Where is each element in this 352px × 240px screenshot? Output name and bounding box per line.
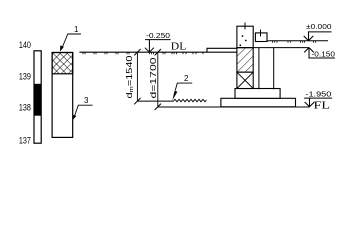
svg-text:137: 137 xyxy=(19,136,31,146)
svg-text:140: 140 xyxy=(19,40,31,50)
svg-text:±0.000: ±0.000 xyxy=(306,22,332,31)
svg-text:3: 3 xyxy=(84,96,89,105)
svg-text:DL: DL xyxy=(171,41,187,52)
svg-text:-1.950: -1.950 xyxy=(305,89,331,98)
svg-text:-0.150: -0.150 xyxy=(312,49,336,58)
svg-text:138: 138 xyxy=(19,103,31,113)
svg-text:FL: FL xyxy=(314,100,331,111)
svg-text:139: 139 xyxy=(19,72,31,82)
svg-text:2: 2 xyxy=(184,74,189,83)
svg-text:d=1700: d=1700 xyxy=(149,57,158,99)
svg-text:1: 1 xyxy=(74,25,79,34)
svg-text:-0.250: -0.250 xyxy=(146,31,170,40)
